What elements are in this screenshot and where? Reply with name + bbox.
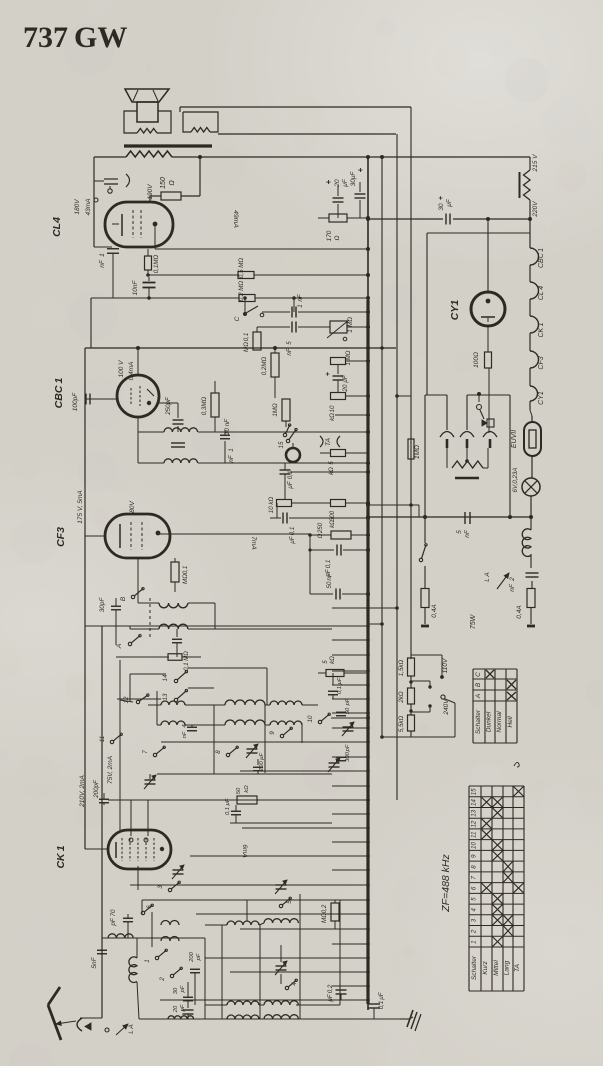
svg-text:14: 14 [162,674,169,681]
svg-text:50: 50 [236,787,242,794]
svg-text:200pF: 200pF [93,779,100,799]
svg-text:0,1: 0,1 [378,1001,385,1010]
svg-text:CK 1: CK 1 [538,322,545,337]
svg-text:pF: pF [345,744,351,752]
svg-text:0,1MΩ: 0,1MΩ [153,254,160,273]
svg-text:30: 30 [438,203,445,211]
svg-text:nF: nF [286,347,293,355]
svg-text:5nF: 5nF [91,956,98,968]
svg-text:μF: μF [378,991,385,1000]
svg-text:43mA: 43mA [85,199,92,216]
svg-text:1,5kΩ: 1,5kΩ [398,660,405,677]
svg-text:Ω: Ω [334,235,341,240]
svg-text:75W: 75W [470,613,477,629]
svg-text:15: 15 [471,788,478,795]
svg-text:μF: μF [225,798,231,806]
svg-text:11: 11 [99,736,106,742]
svg-text:2: 2 [159,977,166,982]
svg-text:0,2: 0,2 [327,984,334,993]
svg-text:10nF: 10nF [132,280,139,296]
svg-text:50: 50 [326,581,333,588]
svg-text:kΩ: kΩ [329,520,336,528]
svg-text:A: A [475,694,482,699]
svg-text:100 V: 100 V [118,360,125,378]
svg-text:200 μF: 200 μF [259,753,265,772]
svg-text:4: 4 [471,908,478,912]
svg-text:10 kΩ: 10 kΩ [268,497,275,514]
svg-text:kΩ: kΩ [329,413,336,421]
svg-text:B: B [120,596,127,601]
svg-text:μF: μF [446,198,453,208]
svg-text:20: 20 [342,384,349,392]
svg-text:μF: μF [289,535,296,544]
svg-text:L A: L A [128,1024,135,1033]
svg-text:A: A [116,643,123,649]
svg-text:0,2: 0,2 [321,904,328,913]
svg-text:pF: pF [180,985,186,993]
svg-text:pF: pF [180,1004,186,1012]
svg-text:MΩ: MΩ [243,342,250,352]
svg-text:0,5 MΩ: 0,5 MΩ [238,258,245,278]
svg-text:nF: nF [509,583,516,592]
svg-text:ZF=488 kHz: ZF=488 kHz [440,854,452,913]
svg-text:200: 200 [189,951,195,962]
svg-text:13: 13 [471,809,478,816]
svg-text:175 V, 5mA: 175 V, 5mA [77,490,84,523]
svg-text:250: 250 [317,522,324,534]
svg-text:0,1: 0,1 [289,527,296,536]
svg-text:0,2MΩ: 0,2MΩ [261,356,268,375]
svg-text:3: 3 [471,918,478,922]
svg-text:0,4A: 0,4A [431,604,438,617]
svg-text:μF: μF [287,480,294,489]
svg-text:Dunkel: Dunkel [486,711,493,732]
svg-text:2: 2 [509,577,516,582]
svg-text:Schalter: Schalter [471,955,478,980]
svg-text:737 GW: 737 GW [23,21,127,54]
svg-text:+: + [324,179,333,184]
svg-text:180V: 180V [74,199,81,215]
svg-text:MΩ: MΩ [182,574,189,584]
svg-text:CL 4: CL 4 [538,286,545,300]
svg-text:6: 6 [471,886,478,890]
svg-text:0,1: 0,1 [337,686,343,694]
svg-text:12: 12 [123,696,130,703]
svg-text:CBC 1: CBC 1 [53,378,65,409]
svg-text:Mittel: Mittel [493,960,500,976]
svg-text:0,1: 0,1 [225,807,231,815]
svg-text:CL4: CL4 [51,217,63,237]
svg-text:kΩ: kΩ [329,656,336,664]
svg-text:Ω: Ω [169,180,176,186]
svg-text:1: 1 [347,329,354,332]
svg-text:220V: 220V [532,201,539,218]
svg-text:1MΩ: 1MΩ [414,445,421,459]
svg-text:5: 5 [471,897,478,901]
svg-text:nF: nF [99,259,106,268]
svg-text:0,3MΩ: 0,3MΩ [201,396,208,415]
svg-text:Hell: Hell [507,716,514,728]
svg-text:4: 4 [182,724,188,727]
svg-text:nF: nF [297,293,304,301]
svg-text:L A: L A [484,572,491,581]
svg-text:Schalter: Schalter [475,709,482,734]
svg-text:170: 170 [326,230,333,241]
svg-text:μF: μF [342,178,349,188]
svg-text:100pF: 100pF [72,392,79,411]
svg-text:15: 15 [278,441,285,448]
svg-text:CF3: CF3 [538,356,545,369]
svg-text:10: 10 [471,842,478,849]
svg-text:7: 7 [142,750,149,754]
svg-text:5: 5 [322,660,329,664]
svg-text:0,4A: 0,4A [516,605,523,618]
svg-text:30: 30 [173,987,179,994]
svg-text:Kurz: Kurz [482,961,489,975]
svg-text:4: 4 [291,982,298,986]
svg-text:CK 1: CK 1 [55,845,67,868]
svg-text:10: 10 [329,405,336,412]
svg-text:5,5kΩ: 5,5kΩ [398,716,405,733]
svg-text:pF: pF [110,917,117,926]
svg-text:215 V: 215 V [532,154,539,173]
svg-text:1 MΩ: 1 MΩ [345,350,352,365]
svg-text:12: 12 [471,820,478,827]
svg-text:MΩ: MΩ [347,317,354,327]
svg-text:2kΩ: 2kΩ [398,691,405,704]
svg-text:+: + [356,167,365,172]
svg-text:2: 2 [471,929,478,934]
svg-text:1: 1 [471,940,478,943]
svg-text:B: B [475,682,482,687]
svg-text:0,1: 0,1 [325,560,332,569]
svg-text:110V: 110V [442,658,449,673]
svg-text:TA: TA [514,963,521,972]
svg-text:20: 20 [173,1005,179,1013]
svg-text:7mA: 7mA [250,536,257,549]
svg-text:1MΩ: 1MΩ [272,403,279,417]
svg-text:70: 70 [110,909,117,916]
svg-text:MΩ: MΩ [321,913,328,923]
svg-text:0,4mA: 0,4mA [128,362,135,381]
svg-text:7: 7 [471,875,478,879]
svg-text:8: 8 [215,750,222,754]
svg-text:Ω: Ω [317,533,324,538]
svg-text:1: 1 [228,448,235,451]
svg-text:100Ω: 100Ω [473,352,480,368]
svg-text:13: 13 [162,693,169,700]
svg-text:1: 1 [99,253,106,257]
svg-text:190V: 190V [147,184,154,200]
svg-text:kΩ: kΩ [244,785,250,793]
svg-text:nF: nF [182,731,188,738]
svg-text:nF: nF [228,454,235,462]
svg-text:Lang: Lang [504,960,511,975]
svg-text:pF: pF [196,953,202,961]
svg-text:14: 14 [471,799,478,806]
svg-text:μF: μF [342,374,349,383]
svg-text:8: 8 [471,865,478,869]
svg-text:11: 11 [471,832,478,838]
svg-text:kΩ: kΩ [328,467,335,475]
svg-text:EUVII: EUVII [511,430,518,448]
svg-text:CF3: CF3 [55,527,67,547]
svg-text:6: 6 [146,905,153,909]
svg-text:nF: nF [464,529,471,538]
svg-text:CY1: CY1 [449,300,461,321]
svg-text:Normal: Normal [496,711,503,733]
svg-text:5: 5 [286,341,293,345]
svg-text:150: 150 [160,177,167,189]
svg-text:300: 300 [329,510,336,521]
svg-text:TA: TA [325,437,332,446]
svg-text:240V: 240V [443,699,450,716]
svg-text:1: 1 [144,959,151,962]
svg-text:+: + [438,196,445,200]
svg-text:9: 9 [269,731,276,735]
svg-text:49mA: 49mA [232,210,239,228]
svg-text:μF: μF [337,677,343,685]
svg-text:5: 5 [456,530,463,534]
svg-text:nF: nF [326,572,333,580]
svg-text:0,1: 0,1 [243,333,250,342]
svg-text:10: 10 [307,715,314,722]
svg-text:C: C [475,672,482,677]
svg-text:C: C [234,316,241,321]
svg-text:80V: 80V [129,501,136,513]
svg-text:CBC 1: CBC 1 [538,248,545,268]
svg-text:75V, 2mA: 75V, 2mA [107,756,114,784]
svg-text:1: 1 [297,304,304,307]
svg-text:6V,0,23A: 6V,0,23A [512,468,519,493]
svg-text:CY1: CY1 [538,391,545,405]
svg-text:+: + [325,372,332,376]
svg-text:250pF: 250pF [165,396,172,416]
svg-text:30pF: 30pF [99,597,106,613]
svg-text:9: 9 [471,854,478,858]
svg-text:μF: μF [327,993,334,1002]
svg-text:0,1: 0,1 [182,566,189,575]
